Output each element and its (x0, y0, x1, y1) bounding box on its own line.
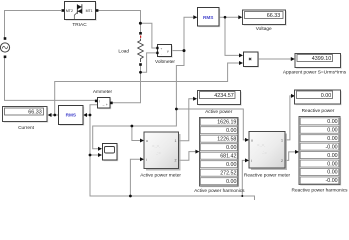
svg-text:0.00: 0.00 (327, 170, 337, 176)
svg-text:4399.10: 4399.10 (312, 56, 332, 62)
svg-text:0.00: 0.00 (226, 162, 236, 168)
svg-text:Active power: Active power (205, 109, 233, 115)
svg-text:0.00: 0.00 (327, 119, 337, 125)
svg-text:RMS: RMS (203, 15, 213, 20)
svg-text:-0.00: -0.00 (326, 144, 338, 150)
svg-text:66.33: 66.33 (267, 13, 281, 19)
svg-text:.:=: .:= (156, 151, 161, 156)
svg-text:4234.57: 4234.57 (214, 93, 234, 99)
svg-text:MT2: MT2 (66, 9, 73, 13)
svg-text:Reactive power: Reactive power (302, 108, 335, 114)
svg-text:u: u (146, 139, 148, 143)
svg-text:1: 1 (175, 139, 177, 143)
svg-text:0.00: 0.00 (226, 179, 236, 185)
svg-text:=..=.: =..=. (257, 143, 265, 148)
svg-text:Apparent power S=Urms*Irms: Apparent power S=Urms*Irms (283, 70, 347, 76)
svg-text:0.00: 0.00 (321, 93, 332, 99)
svg-text:0.00: 0.00 (226, 128, 236, 134)
svg-text:TRIAC: TRIAC (72, 22, 87, 28)
svg-text:v: v (167, 49, 169, 53)
svg-text:MT1: MT1 (86, 9, 93, 13)
svg-text:-0.00: -0.00 (326, 178, 338, 184)
svg-text:0.00: 0.00 (327, 136, 337, 142)
svg-text:1626.19: 1626.19 (217, 119, 236, 125)
svg-text:=..=.: =..=. (152, 144, 160, 149)
svg-text:u: u (251, 139, 253, 143)
svg-text:681.42: 681.42 (220, 153, 236, 159)
svg-text:.:=: .:= (262, 150, 267, 155)
svg-text:Active power harmonics: Active power harmonics (194, 188, 245, 194)
svg-text:→ +: → + (102, 103, 108, 107)
svg-text:1: 1 (281, 139, 283, 143)
svg-text:Active power meter: Active power meter (140, 172, 181, 178)
svg-text:0.00: 0.00 (327, 127, 337, 133)
svg-text:Current: Current (18, 125, 35, 131)
svg-text:1226.58: 1226.58 (217, 136, 236, 142)
svg-text:Reactive power harmonics: Reactive power harmonics (292, 188, 349, 194)
svg-text:272.52: 272.52 (220, 170, 236, 176)
svg-text:+: + (161, 47, 163, 51)
svg-text:66.33: 66.33 (28, 110, 42, 116)
svg-text:Reactive power meter: Reactive power meter (244, 173, 291, 179)
svg-text:2: 2 (281, 159, 283, 163)
svg-text:.: . (161, 52, 162, 56)
svg-text:Load: Load (118, 48, 129, 54)
svg-text:RMS: RMS (66, 113, 76, 118)
svg-text:Ammeter: Ammeter (93, 89, 113, 95)
svg-text:0.00: 0.00 (327, 153, 337, 159)
svg-text:Voltmeter: Voltmeter (155, 59, 175, 65)
svg-text:2: 2 (175, 159, 177, 163)
svg-text:Voltage: Voltage (256, 26, 272, 32)
svg-text:0.00: 0.00 (327, 161, 337, 167)
svg-text:0.00: 0.00 (226, 145, 236, 151)
